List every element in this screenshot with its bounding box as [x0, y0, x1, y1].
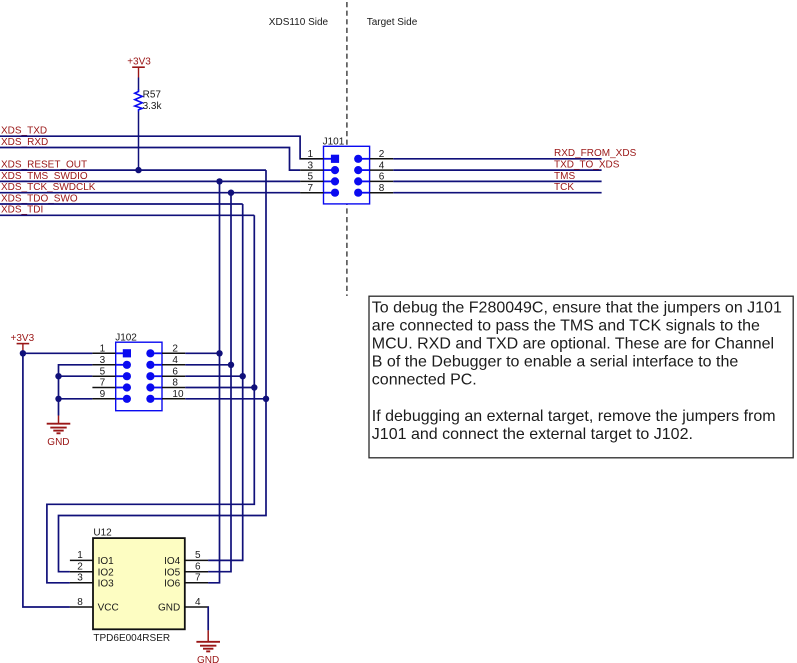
U12 pin 5 stub	[185, 559, 208, 561]
svg-text:3: 3	[307, 160, 313, 171]
svg-text:VCC: VCC	[98, 603, 119, 614]
svg-text:IO5: IO5	[164, 567, 181, 578]
J102 pin 2 stub	[162, 352, 185, 354]
svg-text:XDS110 Side: XDS110 Side	[269, 17, 329, 28]
J101 pin 5 stub	[300, 180, 323, 182]
svg-text:7: 7	[307, 183, 313, 194]
IC U12 TPD6E004RSER	[70, 528, 208, 645]
svg-text:TXD_TO_XDS: TXD_TO_XDS	[554, 160, 620, 171]
wire J102 pin9 to GND	[59, 398, 93, 400]
svg-text:2: 2	[77, 562, 83, 573]
wire +3V3 to J102 pin1	[23, 352, 93, 354]
svg-text:8: 8	[172, 378, 178, 389]
wire J102 pin4 to TCK vertical	[185, 364, 231, 366]
wire J102 pin8 to TDI vertical	[185, 387, 254, 389]
wire XDS_TDO_SWO vertical to IO4	[208, 204, 243, 560]
svg-text:TMS: TMS	[554, 171, 575, 182]
svg-text:IO2: IO2	[98, 567, 115, 578]
wire XDS_RESET_OUT vertical to IO2	[59, 170, 267, 572]
wire XDS_TDI vertical to IO3	[47, 215, 254, 583]
svg-text:GND: GND	[197, 655, 219, 663]
junction XDS_TCK_SWDCLK tap	[228, 190, 234, 196]
J101 pin 6 stub	[370, 180, 394, 182]
J101 pin 2 stub	[370, 158, 394, 160]
U12 pin 7 stub	[185, 582, 208, 584]
svg-text:3: 3	[77, 573, 83, 584]
U12 pin 8 stub	[70, 606, 93, 608]
svg-text:6: 6	[379, 172, 385, 183]
J102 pads pins 3,5,7,9	[123, 361, 131, 369]
svg-text:TCK: TCK	[554, 182, 574, 193]
junction XDS_TDO_SWO / J102 pin6	[240, 373, 246, 379]
svg-text:XDS_TDI: XDS_TDI	[1, 205, 43, 216]
svg-text:XDS_RESET_OUT: XDS_RESET_OUT	[1, 160, 87, 171]
section divider dashed line	[346, 2, 348, 296]
J102 pin 3 stub	[92, 364, 115, 366]
wire XDS_TDI horizontal	[0, 214, 254, 216]
wire XDS_RESET_OUT horizontal	[0, 169, 266, 171]
svg-text:7: 7	[195, 573, 201, 584]
svg-text:5: 5	[100, 366, 106, 377]
svg-text:5: 5	[195, 550, 201, 561]
wire +3V3 down to U12 VCC	[23, 353, 70, 607]
svg-text:4: 4	[195, 597, 201, 608]
wire XDS_RXD to J101 pin3	[0, 148, 300, 171]
connector J102	[92, 332, 185, 410]
wire J101 pin8 to TCK	[393, 192, 601, 194]
wire J102 pin10 to RESET vertical	[185, 398, 266, 400]
J102 pads pins 2,4,6,8,10	[146, 349, 154, 357]
svg-text:IO4: IO4	[164, 556, 181, 567]
J101 pin 3 stub	[300, 169, 323, 171]
wire J101 pin6 to TMS	[393, 180, 601, 182]
wire R57 to XDS_RESET_OUT net	[138, 112, 140, 171]
J101 pad pin1 square	[331, 155, 339, 163]
svg-text:J101 and connect the external: J101 and connect the external target to …	[372, 426, 693, 443]
junction XDS_RESET_OUT / J102 pin10	[263, 396, 269, 402]
J101 pads pins 2,4,6,8	[354, 155, 362, 163]
svg-text:8: 8	[77, 597, 83, 608]
svg-text:Target Side: Target Side	[367, 17, 418, 28]
U12 pin 2 stub	[70, 571, 93, 573]
wire J101 pin4 to TXD_TO_XDS	[393, 169, 601, 171]
wire J101 pin2 to RXD_FROM_XDS	[393, 158, 601, 160]
J102 pin 9 stub	[92, 398, 115, 400]
J102 pin 5 stub	[92, 375, 115, 377]
svg-text:XDS_TDO_SWO: XDS_TDO_SWO	[1, 193, 78, 204]
svg-text:8: 8	[379, 183, 385, 194]
wire +3V3 to R57	[138, 78, 140, 91]
J102 pin 6 stub	[162, 375, 185, 377]
svg-text:7: 7	[100, 378, 106, 389]
junction XDS_TMS_SWDIO tap	[216, 178, 222, 184]
svg-text:IO3: IO3	[98, 578, 115, 589]
wire U12 GND pin4 down	[207, 607, 209, 630]
svg-text:+3V3: +3V3	[11, 333, 35, 344]
J101 pin 8 stub	[370, 192, 394, 194]
ground symbol (J102)	[47, 416, 71, 448]
wire XDS_TCK_SWDCLK vertical to IO5	[208, 193, 231, 572]
junction XDS_TMS_SWDIO / J102 pin2	[216, 350, 222, 356]
junction GND / J102 pin5	[55, 373, 61, 379]
svg-text:9: 9	[100, 389, 106, 400]
wire XDS_TCK_SWDCLK to J101 pin7	[0, 192, 300, 194]
J101 inner pin lines	[324, 158, 334, 160]
junction R57/XDS_RESET_OUT	[135, 167, 141, 173]
note text box	[369, 296, 793, 458]
U12 pin 4 stub	[185, 606, 208, 608]
svg-text:5: 5	[307, 172, 313, 183]
ground symbol (U12)	[196, 630, 220, 663]
svg-text:2: 2	[379, 149, 385, 160]
wire J102 pin2 to TMS vertical	[185, 352, 219, 354]
wire J102 pin3 to GND	[59, 365, 93, 416]
svg-text:MCU. RXD and TXD are optional.: MCU. RXD and TXD are optional. These are…	[372, 336, 774, 353]
svg-text:GND: GND	[158, 603, 180, 614]
svg-text:connected PC.: connected PC.	[372, 372, 477, 389]
J102 inner pin lines	[116, 352, 125, 354]
wire XDS_TMS_SWDIO vertical to IO6	[208, 181, 219, 582]
J102 pin 8 stub	[162, 387, 185, 389]
svg-text:3: 3	[100, 355, 106, 366]
svg-text:+3V3: +3V3	[127, 57, 151, 68]
J102 pin 10 stub	[162, 398, 185, 400]
svg-text:1: 1	[100, 344, 106, 355]
wire J102 pin6 to TDO vertical	[185, 375, 242, 377]
junction XDS_TDI / J102 pin8	[251, 384, 257, 390]
power symbol +3V3 (at J102)	[11, 333, 35, 353]
svg-text:RXD_FROM_XDS: RXD_FROM_XDS	[554, 148, 637, 159]
junction +3V3 / J102 pin1	[20, 350, 26, 356]
svg-text:are connected to pass the TMS: are connected to pass the TMS and TCK si…	[372, 317, 760, 334]
svg-text:XDS_TXD: XDS_TXD	[1, 126, 47, 137]
wire XDS_TXD to J101 pin1	[0, 136, 324, 159]
J101 pin 1 stub	[300, 158, 323, 160]
svg-text:XDS_RXD: XDS_RXD	[1, 137, 48, 148]
junction XDS_TCK_SWDCLK / J102 pin4	[228, 362, 234, 368]
wire XDS_TMS_SWDIO to J101 pin5	[0, 180, 300, 182]
svg-text:GND: GND	[47, 437, 69, 448]
J101 pin 4 stub	[370, 169, 394, 171]
svg-text:10: 10	[172, 389, 184, 400]
J101 pin 7 stub	[300, 192, 323, 194]
svg-text:XDS_TCK_SWDCLK: XDS_TCK_SWDCLK	[1, 182, 96, 193]
svg-text:4: 4	[172, 355, 178, 366]
svg-text:To debug the F280049C, ensure: To debug the F280049C, ensure that the j…	[372, 299, 782, 316]
svg-text:1: 1	[77, 550, 83, 561]
connector J101	[300, 137, 393, 204]
svg-text:4: 4	[379, 160, 385, 171]
svg-text:U12: U12	[93, 528, 112, 539]
U12 pin 1 stub (IO1, unconnected)	[70, 559, 93, 561]
svg-text:B of the Debugger to enable a: B of the Debugger to enable a serial int…	[372, 354, 739, 371]
J102 pin 7 stub	[92, 387, 115, 389]
resistor R57	[135, 89, 163, 112]
svg-text:6: 6	[172, 366, 178, 377]
J102 pin 4 stub	[162, 364, 185, 366]
svg-text:2: 2	[172, 344, 178, 355]
svg-text:IO6: IO6	[164, 578, 181, 589]
U12 pin 6 stub	[185, 571, 208, 573]
J101 pads pins 3,5,7	[331, 166, 339, 174]
J102 pad pin1 square	[123, 349, 131, 357]
svg-text:6: 6	[195, 562, 201, 573]
J102 pin 1 stub	[92, 352, 115, 354]
svg-text:1: 1	[307, 149, 313, 160]
svg-text:TPD6E004RSER: TPD6E004RSER	[93, 633, 170, 644]
wire J102 pin5 to GND	[59, 375, 93, 377]
junction GND / J102 pin9	[55, 396, 61, 402]
svg-text:R57: R57	[143, 89, 162, 100]
U12 pin 3 stub	[70, 582, 93, 584]
svg-text:IO1: IO1	[98, 556, 115, 567]
svg-text:3.3k: 3.3k	[143, 101, 163, 112]
wire XDS_TDO_SWO horizontal	[0, 203, 243, 205]
svg-text:If debugging an external targe: If debugging an external target, remove …	[372, 408, 776, 425]
svg-text:XDS_TMS_SWDIO: XDS_TMS_SWDIO	[1, 171, 88, 182]
power symbol +3V3 (top, at R57)	[127, 57, 151, 78]
